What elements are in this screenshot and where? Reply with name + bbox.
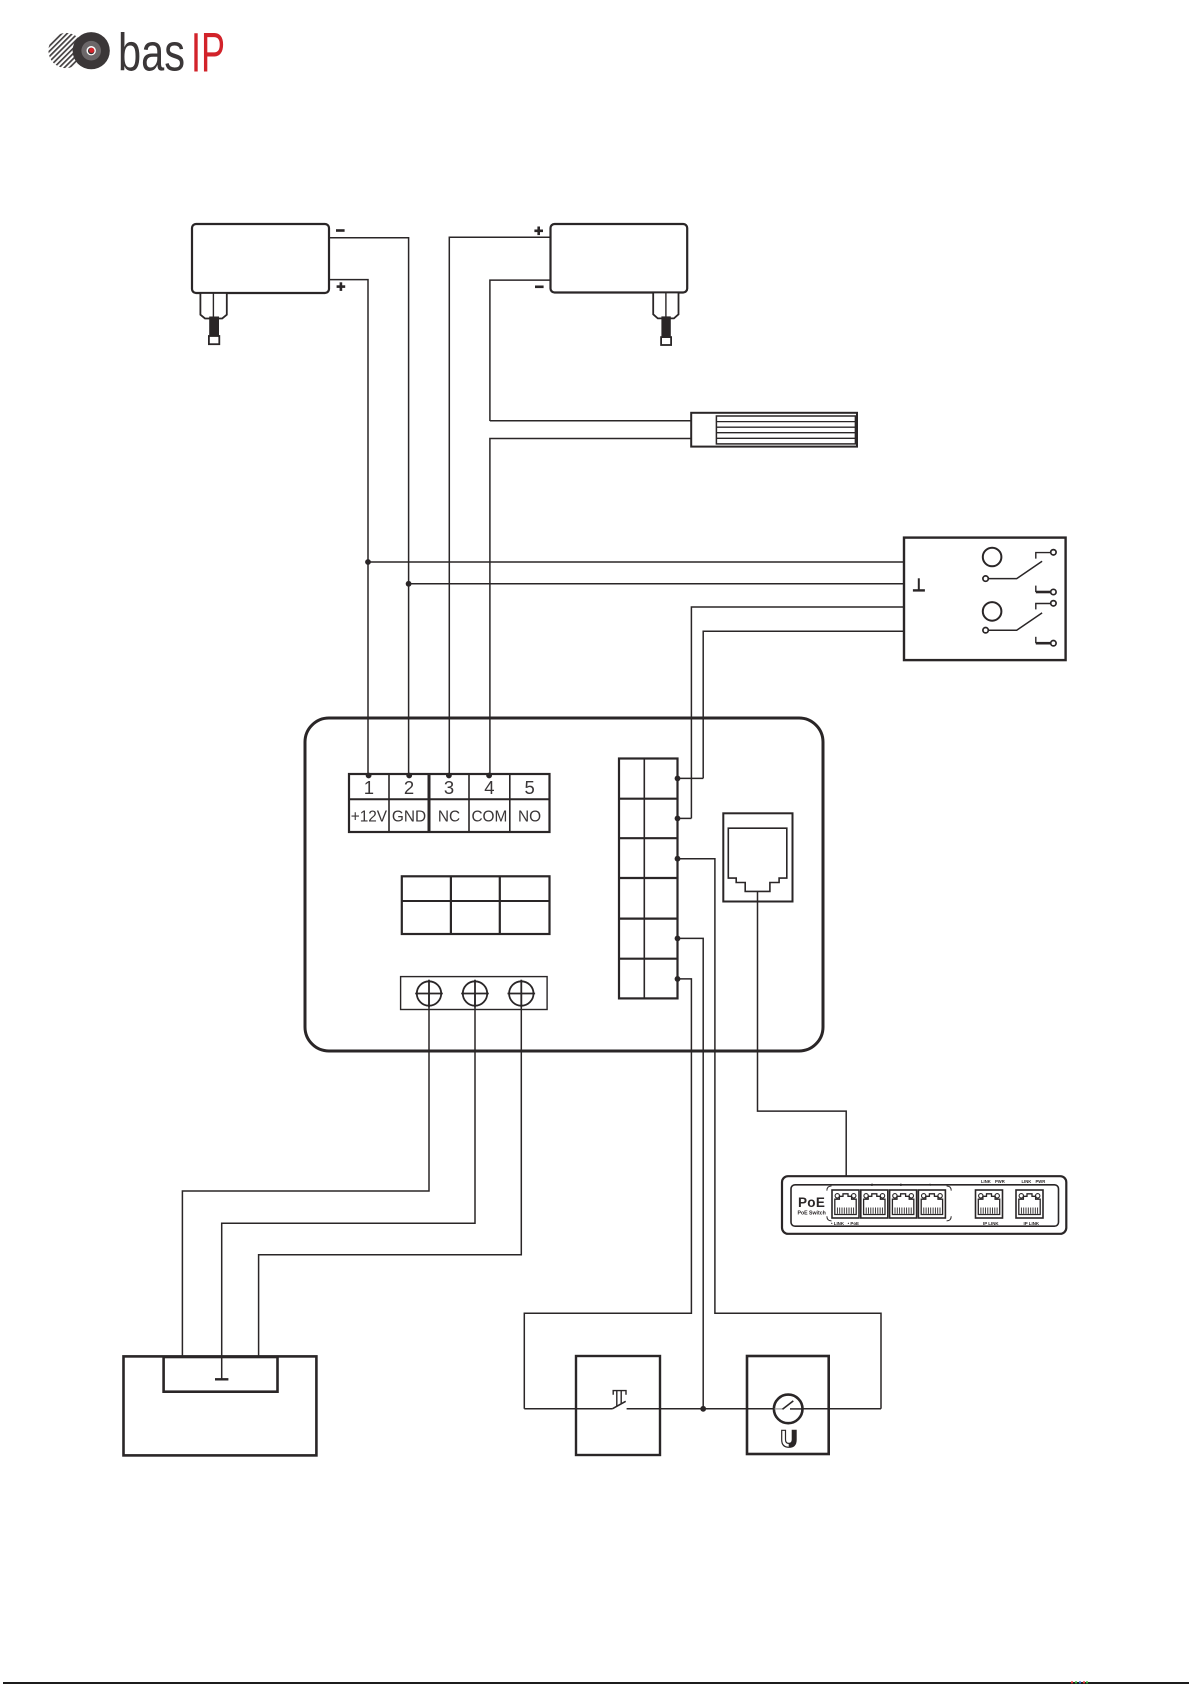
- svg-text:LINK: LINK: [981, 1179, 991, 1184]
- svg-text:1: 1: [364, 777, 374, 798]
- svg-text:IP LINK: IP LINK: [983, 1221, 999, 1226]
- svg-text:COM: COM: [471, 809, 507, 826]
- svg-text:PWR: PWR: [995, 1179, 1005, 1184]
- svg-text:PoE: PoE: [798, 1195, 825, 1210]
- svg-text:4: 4: [929, 1183, 931, 1187]
- svg-text:bas: bas: [118, 23, 185, 82]
- svg-text:GND: GND: [392, 809, 426, 826]
- svg-text:4: 4: [484, 777, 494, 798]
- svg-text:2: 2: [404, 777, 414, 798]
- svg-text:3: 3: [444, 777, 454, 798]
- svg-text:• LINK • PoE: • LINK • PoE: [831, 1221, 859, 1226]
- svg-text:LINK: LINK: [1022, 1179, 1032, 1184]
- svg-text:2: 2: [871, 1183, 873, 1187]
- svg-text:IP LINK: IP LINK: [1024, 1221, 1040, 1226]
- svg-text:5: 5: [524, 777, 534, 798]
- svg-text:IP: IP: [191, 20, 225, 83]
- svg-text:3: 3: [900, 1183, 902, 1187]
- svg-text:NO: NO: [518, 809, 541, 826]
- svg-text:NC: NC: [438, 809, 460, 826]
- svg-text:PoE Switch: PoE Switch: [798, 1211, 826, 1217]
- svg-text:PWR: PWR: [1036, 1179, 1046, 1184]
- svg-text:+12V: +12V: [351, 809, 388, 826]
